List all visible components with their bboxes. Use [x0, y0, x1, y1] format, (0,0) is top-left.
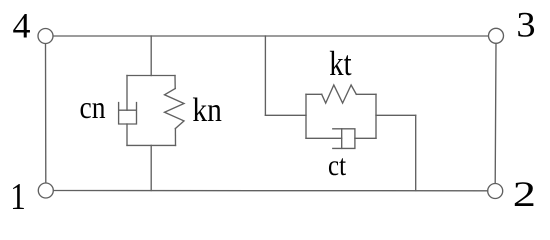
svg-text:kt: kt	[329, 45, 352, 83]
svg-text:3: 3	[516, 5, 535, 45]
svg-text:4: 4	[13, 6, 31, 46]
svg-text:kn: kn	[192, 92, 222, 129]
svg-text:ct: ct	[328, 149, 347, 182]
svg-text:1: 1	[10, 176, 26, 218]
svg-text:cn: cn	[80, 89, 106, 125]
svg-text:2: 2	[513, 174, 536, 214]
